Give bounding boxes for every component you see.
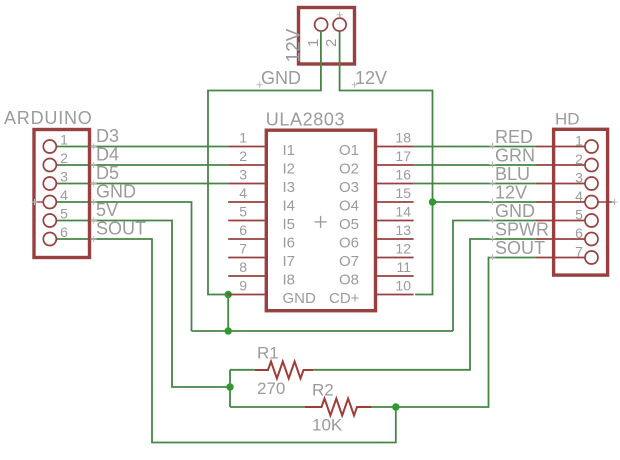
cross D4 bbox=[91, 162, 97, 168]
svg-text:3: 3 bbox=[239, 167, 247, 183]
wire D3 bbox=[56, 146, 228, 148]
junction dot SOUT / R2 right bbox=[392, 403, 399, 410]
wire R1 left vertical to R2 level bbox=[229, 370, 231, 407]
svg-text:6: 6 bbox=[575, 225, 583, 241]
svg-text:O7: O7 bbox=[339, 253, 359, 270]
wire GND up to HD pin5 bbox=[453, 221, 535, 332]
junction dot 5V / R1 R2 left bbox=[226, 383, 233, 390]
wire GND branch down to bus bbox=[227, 295, 229, 332]
svg-text:10K: 10K bbox=[312, 415, 343, 434]
label origin cross 12V top bbox=[352, 82, 358, 88]
IC U1 ULA2803 bbox=[228, 130, 413, 311]
svg-text:7: 7 bbox=[239, 241, 247, 257]
U1 pin 9 stub bbox=[228, 294, 265, 296]
wire GND from ARDUINO pin4 bbox=[56, 202, 191, 331]
ARDUINO pin 6 circle bbox=[43, 233, 56, 246]
connector body outline bbox=[299, 8, 355, 65]
svg-text:O6: O6 bbox=[339, 235, 359, 252]
svg-text:D5: D5 bbox=[96, 163, 119, 183]
svg-text:SOUT: SOUT bbox=[96, 219, 146, 239]
pin 2 circle bbox=[333, 18, 346, 31]
svg-text:13: 13 bbox=[395, 222, 411, 238]
ARDUINO pin 4 circle bbox=[43, 196, 56, 209]
cross GRN bbox=[490, 162, 496, 168]
ARDUINO pin numbers bbox=[60, 132, 68, 241]
U1 pin 5 stub bbox=[228, 220, 265, 222]
wire BLU bbox=[414, 183, 536, 185]
wire SOUT from ARDUINO pin6 bottom loop bbox=[56, 239, 395, 443]
wire GND bus horizontal bbox=[192, 330, 454, 332]
svg-text:BLU: BLU bbox=[495, 164, 530, 184]
wire GRN bbox=[414, 164, 536, 166]
svg-text:HD: HD bbox=[555, 109, 580, 128]
svg-text:ARDUINO: ARDUINO bbox=[4, 108, 93, 128]
svg-text:R1: R1 bbox=[257, 344, 279, 363]
label origin cross GND top bbox=[257, 82, 263, 88]
svg-text:2: 2 bbox=[60, 150, 68, 166]
svg-text:I3: I3 bbox=[283, 179, 296, 196]
wire 12V: J3 pin2 down to CD+ bbox=[340, 31, 433, 295]
svg-text:12V: 12V bbox=[495, 182, 527, 202]
U1 pin 11 stub bbox=[377, 275, 414, 277]
U1 pin 16 stub bbox=[377, 183, 414, 185]
svg-text:5: 5 bbox=[575, 207, 583, 223]
svg-text:GND: GND bbox=[495, 201, 535, 221]
svg-text:5: 5 bbox=[239, 204, 247, 220]
connector J3 12V power header bbox=[299, 8, 355, 65]
svg-text:O1: O1 bbox=[339, 142, 359, 159]
ARDUINO pin 5 circle bbox=[43, 214, 56, 227]
cross 5V bbox=[91, 218, 97, 224]
svg-text:I2: I2 bbox=[283, 161, 296, 178]
U1 pin 10 stub bbox=[377, 294, 414, 296]
cross BLU bbox=[490, 180, 496, 186]
svg-text:1: 1 bbox=[575, 133, 583, 149]
svg-text:4: 4 bbox=[575, 188, 583, 204]
svg-text:ULA2803: ULA2803 bbox=[266, 109, 345, 129]
pin 2 top stub and origin cross bbox=[339, 15, 341, 18]
pin4 cross ARDUINO bbox=[32, 199, 38, 205]
cross SOUT right bbox=[490, 254, 496, 260]
HD connector body outline bbox=[554, 129, 608, 275]
ARDUINO pin 2 circle bbox=[43, 159, 56, 172]
wire 12V to HD pin4 bbox=[433, 201, 536, 203]
svg-text:2: 2 bbox=[575, 151, 583, 167]
svg-text:O3: O3 bbox=[339, 179, 359, 196]
HD pin 7 circle bbox=[585, 251, 598, 264]
svg-text:4: 4 bbox=[239, 185, 247, 201]
svg-text:GND: GND bbox=[96, 182, 136, 202]
U1 pin 2 stub bbox=[228, 164, 265, 166]
svg-text:16: 16 bbox=[395, 167, 411, 183]
svg-text:11: 11 bbox=[396, 259, 411, 275]
svg-text:GND: GND bbox=[283, 290, 317, 307]
svg-text:5V: 5V bbox=[96, 200, 118, 220]
svg-text:7: 7 bbox=[575, 244, 583, 260]
svg-text:10: 10 bbox=[395, 278, 411, 294]
svg-text:1: 1 bbox=[305, 39, 322, 47]
cross GND left bbox=[91, 199, 97, 205]
HD pin 2 stub bbox=[535, 164, 585, 166]
svg-text:270: 270 bbox=[257, 379, 285, 398]
svg-text:18: 18 bbox=[395, 130, 411, 146]
svg-text:4: 4 bbox=[60, 187, 68, 203]
svg-text:I1: I1 bbox=[283, 142, 296, 159]
pin 1 circle bbox=[315, 18, 328, 31]
svg-text:O5: O5 bbox=[339, 216, 359, 233]
wire GND: J3 pin1 down bbox=[208, 31, 321, 295]
U1 pin 7 stub bbox=[228, 257, 265, 259]
svg-text:6: 6 bbox=[60, 224, 68, 240]
HD pin 1 stub bbox=[535, 146, 585, 148]
junction dot 12V at pin15 row bbox=[429, 198, 436, 205]
svg-text:I6: I6 bbox=[283, 235, 296, 252]
svg-text:R2: R2 bbox=[312, 381, 334, 400]
U1 pin 8 stub bbox=[228, 275, 265, 277]
svg-text:CD+: CD+ bbox=[329, 290, 360, 307]
IC left pin numbers bbox=[239, 130, 247, 294]
cross GND right bbox=[490, 217, 496, 223]
IC pin names O1-O8, CD+ bbox=[329, 142, 360, 307]
svg-text:17: 17 bbox=[395, 148, 411, 164]
connector SV1 ARDUINO bbox=[34, 130, 90, 258]
U1 pin 1 stub bbox=[228, 146, 265, 148]
wire D4 bbox=[56, 164, 228, 166]
wire 5V from ARDUINO pin5 bbox=[56, 221, 230, 388]
U1 pin 15 stub bbox=[377, 201, 414, 203]
HD pin 6 circle bbox=[585, 233, 598, 246]
U1 pin 12 stub bbox=[377, 257, 414, 259]
U1 pin 6 stub bbox=[228, 238, 265, 240]
svg-text:SOUT: SOUT bbox=[495, 238, 545, 258]
resistor R1 zigzag bbox=[255, 362, 313, 379]
ARDUINO pin 4 stub bbox=[36, 201, 43, 203]
svg-text:I5: I5 bbox=[283, 216, 296, 233]
wire R1 right to SPWR bbox=[313, 239, 535, 370]
svg-text:I7: I7 bbox=[283, 253, 296, 270]
svg-text:15: 15 bbox=[395, 185, 411, 201]
cross D3 bbox=[91, 144, 97, 150]
IC right pin numbers bbox=[395, 130, 411, 294]
HD pin 5 stub bbox=[535, 220, 585, 222]
cross D5 bbox=[91, 181, 97, 187]
wire D5 bbox=[56, 183, 228, 185]
U1 pin 13 stub bbox=[377, 238, 414, 240]
junction dot GND at IC pin9 bbox=[225, 291, 232, 298]
svg-text:14: 14 bbox=[395, 204, 411, 220]
svg-text:GND: GND bbox=[261, 68, 301, 88]
svg-text:3: 3 bbox=[575, 170, 583, 186]
HD pin 5 circle bbox=[585, 214, 598, 227]
junction dot GND bus bbox=[225, 327, 232, 334]
connector HD bbox=[535, 129, 614, 275]
ARDUINO pin 3 circle bbox=[43, 177, 56, 190]
HD pin 3 circle bbox=[585, 177, 598, 190]
U1 pin 17 stub bbox=[377, 164, 414, 166]
IC center plus symbol bbox=[315, 216, 327, 228]
HD pin 6 stub bbox=[535, 238, 585, 240]
svg-text:O8: O8 bbox=[339, 272, 359, 289]
HD pin 4 right stub bbox=[598, 201, 614, 203]
svg-text:SPWR: SPWR bbox=[495, 219, 549, 239]
HD pin 4 stub bbox=[535, 201, 585, 203]
wire R1 left lead bbox=[230, 369, 255, 371]
svg-text:12: 12 bbox=[395, 241, 411, 257]
svg-text:O2: O2 bbox=[339, 161, 359, 178]
svg-text:I8: I8 bbox=[283, 272, 296, 289]
svg-text:12V: 12V bbox=[284, 28, 305, 62]
ARDUINO connector body outline bbox=[34, 130, 90, 258]
svg-text:2: 2 bbox=[323, 39, 340, 47]
cross RED bbox=[490, 143, 496, 149]
U1 pin 4 stub bbox=[228, 201, 265, 203]
svg-text:GRN: GRN bbox=[495, 145, 535, 165]
IC pin names I1-I8, GND bbox=[283, 142, 317, 307]
cross SPWR bbox=[490, 236, 496, 242]
wire R2 right to SOUT HD pin7 bbox=[372, 258, 536, 408]
HD pin numbers bbox=[575, 133, 583, 260]
svg-text:3: 3 bbox=[60, 169, 68, 185]
HD pin 4 circle bbox=[585, 196, 598, 209]
svg-text:8: 8 bbox=[239, 259, 247, 275]
svg-text:O4: O4 bbox=[339, 198, 359, 215]
U1 pin 14 stub bbox=[377, 220, 414, 222]
svg-text:12V: 12V bbox=[355, 68, 387, 88]
svg-text:6: 6 bbox=[239, 222, 247, 238]
svg-text:I4: I4 bbox=[283, 198, 296, 215]
svg-text:D3: D3 bbox=[96, 126, 119, 146]
svg-text:1: 1 bbox=[239, 130, 247, 146]
ARDUINO pin 1 circle bbox=[43, 140, 56, 153]
cross 12V right bbox=[490, 199, 496, 205]
U1 pin 18 stub bbox=[377, 146, 414, 148]
resistor R2 zigzag bbox=[305, 399, 372, 416]
svg-text:9: 9 bbox=[239, 278, 247, 294]
U1 pin 3 stub bbox=[228, 183, 265, 185]
svg-text:5: 5 bbox=[60, 206, 68, 222]
svg-text:2: 2 bbox=[239, 148, 247, 164]
svg-text:RED: RED bbox=[495, 127, 533, 147]
cross SOUT left bbox=[91, 236, 97, 242]
HD pin 7 stub bbox=[535, 257, 585, 259]
pin4 cross HD bbox=[612, 199, 618, 205]
svg-text:1: 1 bbox=[60, 132, 68, 148]
HD pin 2 circle bbox=[585, 159, 598, 172]
HD pin 3 stub bbox=[535, 183, 585, 185]
wire RED bbox=[414, 146, 536, 148]
svg-text:D4: D4 bbox=[96, 145, 119, 165]
HD pin 1 circle bbox=[585, 140, 598, 153]
wire R2 left lead bbox=[230, 406, 305, 408]
